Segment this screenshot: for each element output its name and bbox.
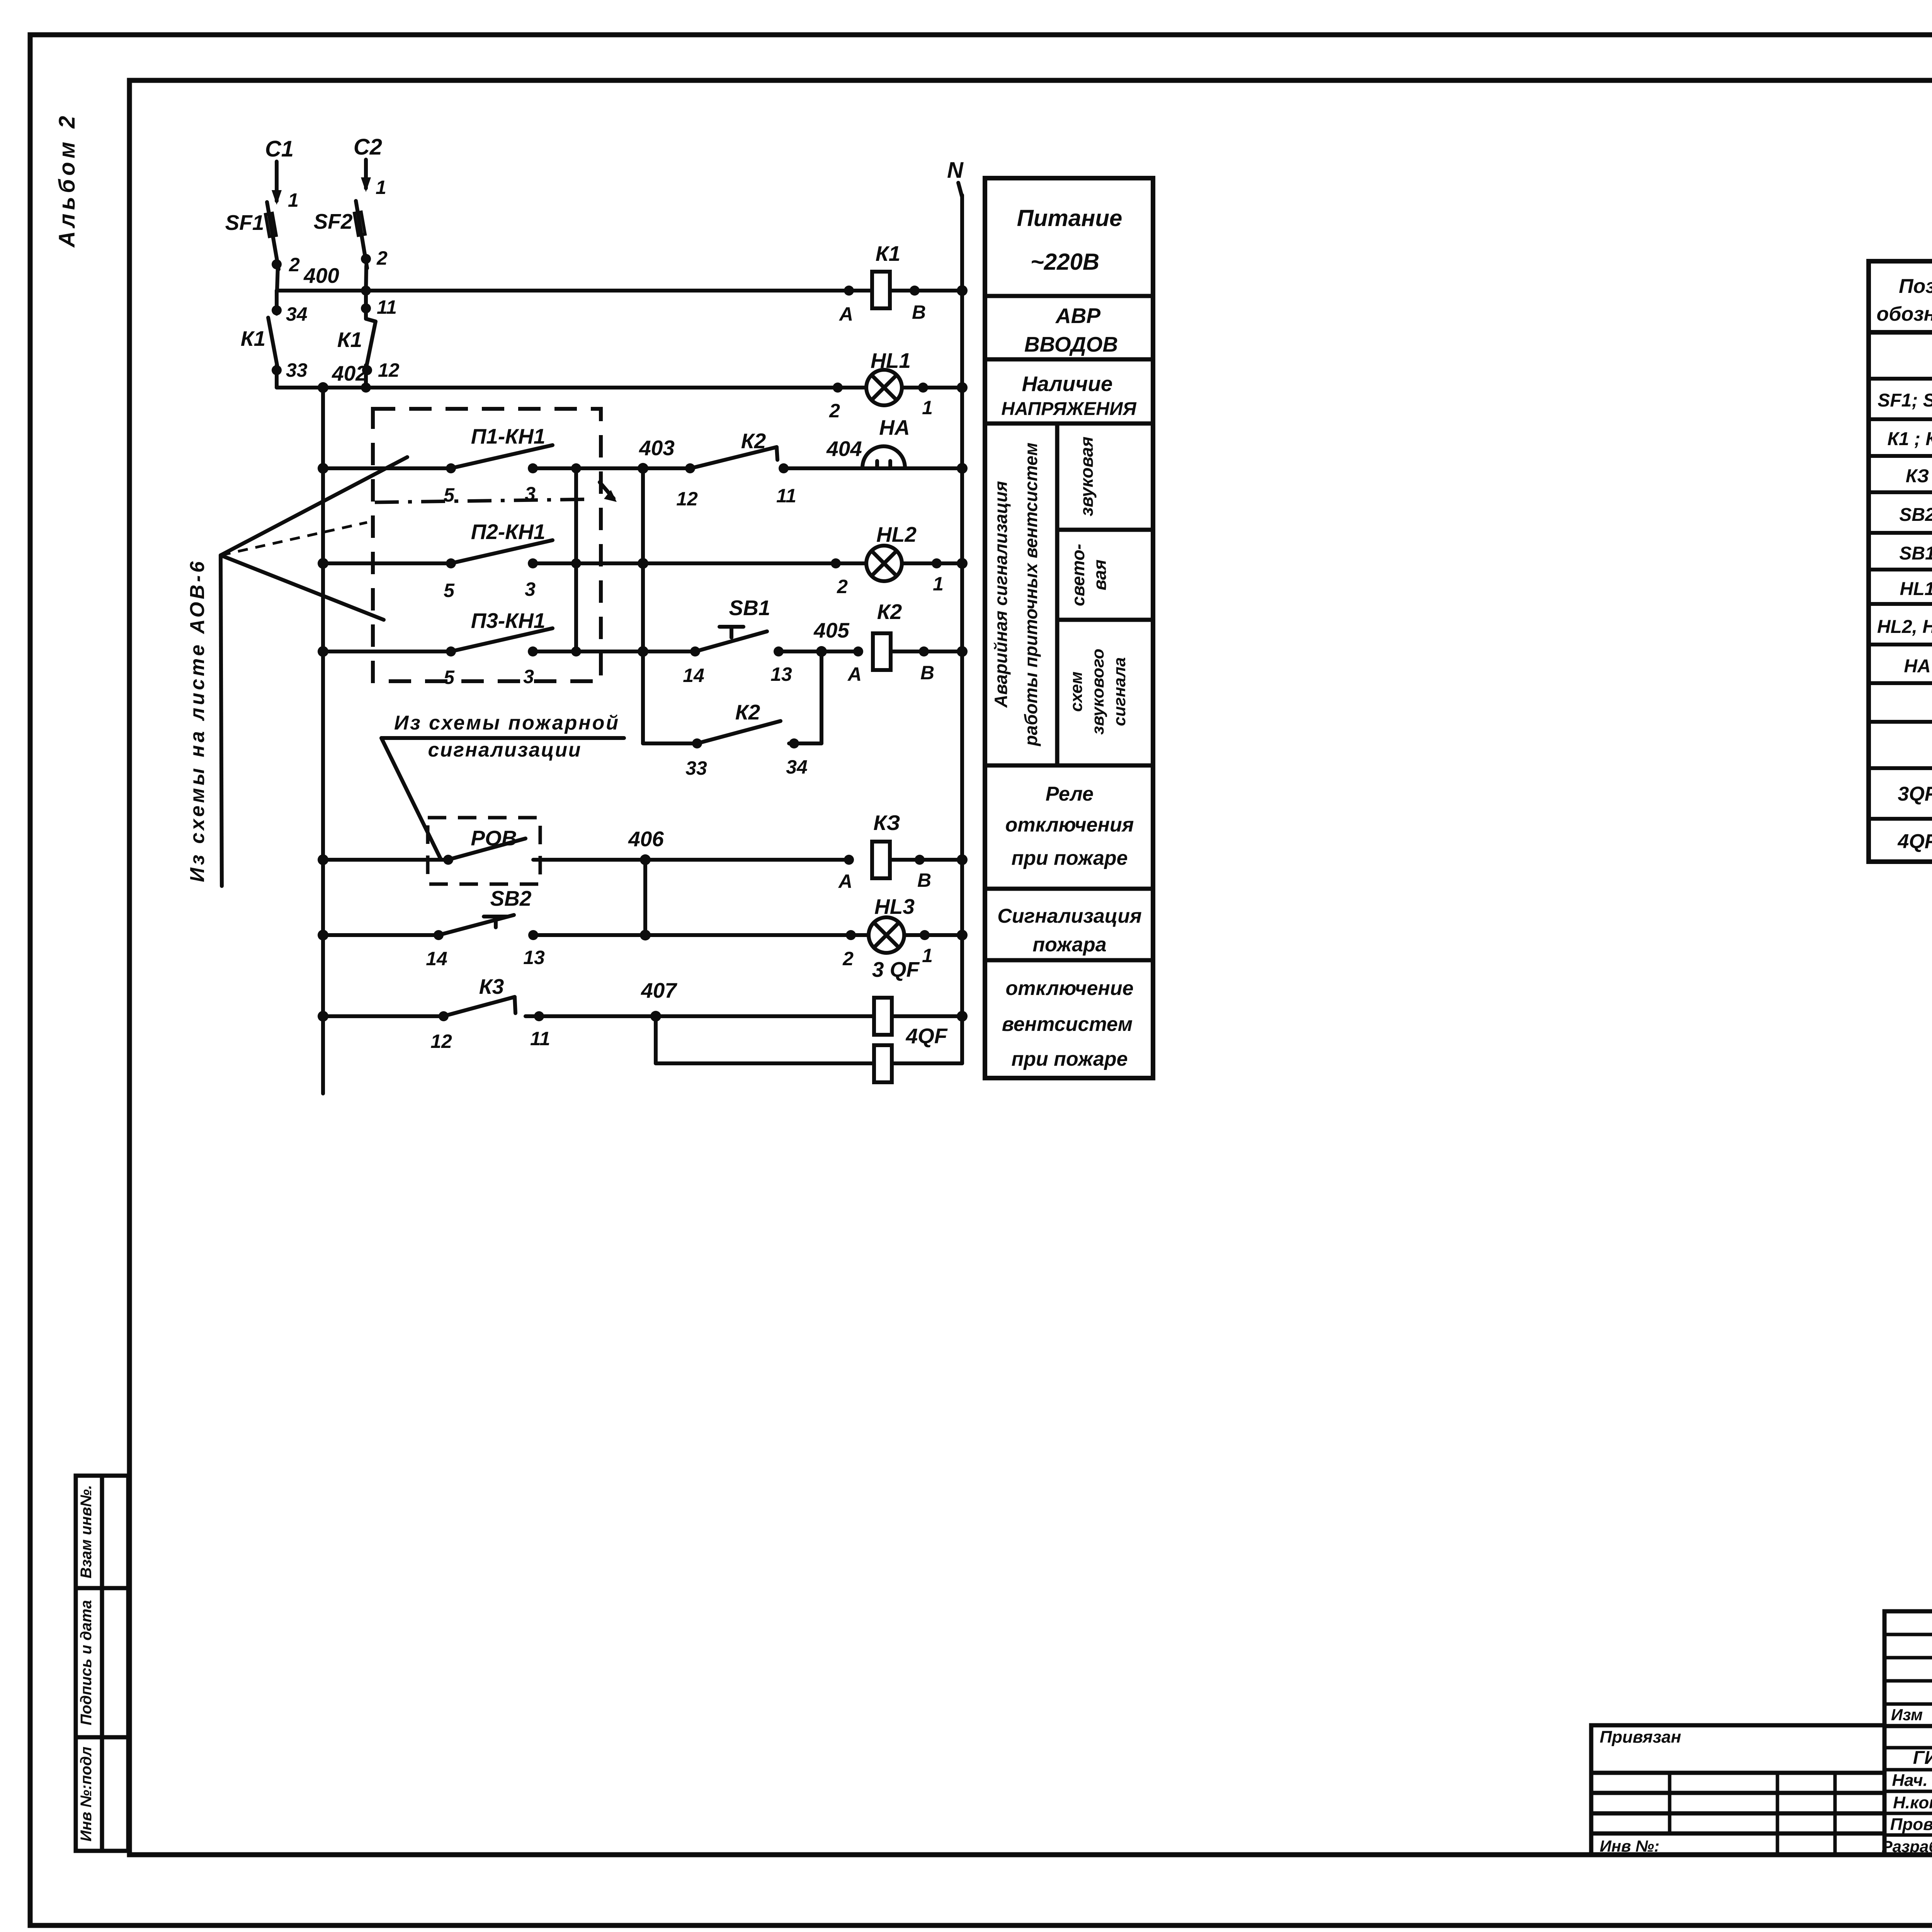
svg-text:звукового: звукового — [1088, 649, 1107, 735]
svg-text:КЗ: КЗ — [1906, 466, 1929, 486]
svg-text:2: 2 — [376, 247, 388, 269]
svg-text:SF1: SF1 — [225, 211, 264, 235]
svg-text:сигнала: сигнала — [1110, 657, 1129, 726]
svg-text:2: 2 — [289, 254, 300, 276]
svg-text:П3-КН1: П3-КН1 — [471, 609, 546, 633]
svg-text:14: 14 — [683, 665, 704, 686]
svg-text:~220В: ~220В — [1031, 249, 1099, 275]
svg-text:1: 1 — [922, 397, 933, 418]
svg-text:А: А — [838, 871, 852, 892]
svg-text:2: 2 — [829, 400, 840, 422]
svg-text:отключение: отключение — [1005, 977, 1133, 1000]
svg-text:34: 34 — [286, 303, 308, 325]
svg-text:ГИП: ГИП — [1913, 1748, 1932, 1768]
svg-text:Взам инв№.: Взам инв№. — [78, 1485, 95, 1578]
svg-text:Аварийная сигнализация: Аварийная сигнализация — [991, 481, 1011, 708]
svg-text:вентсистем: вентсистем — [1002, 1013, 1133, 1036]
svg-text:Н.контр: Н.контр — [1893, 1793, 1932, 1812]
svg-text:при пожаре: при пожаре — [1011, 847, 1128, 869]
svg-text:402: 402 — [332, 361, 367, 385]
svg-text:N: N — [947, 158, 964, 183]
svg-text:1: 1 — [288, 189, 299, 211]
svg-text:Поз: Поз — [1899, 275, 1932, 298]
svg-text:3: 3 — [523, 666, 534, 687]
svg-text:НА: НА — [879, 415, 910, 439]
svg-text:Разработал: Разработал — [1882, 1837, 1932, 1855]
svg-text:Питание: Питание — [1017, 205, 1122, 231]
svg-text:П1-КН1: П1-КН1 — [471, 424, 546, 448]
svg-text:3 QF: 3 QF — [872, 957, 920, 981]
svg-text:А: А — [847, 663, 862, 685]
svg-text:В: В — [920, 662, 934, 684]
svg-text:404: 404 — [826, 437, 862, 461]
svg-text:11: 11 — [776, 485, 796, 507]
svg-text:Изм: Изм — [1891, 1706, 1923, 1724]
svg-text:Нач. отд: Нач. отд — [1892, 1771, 1932, 1790]
svg-text:5: 5 — [444, 667, 455, 688]
svg-text:HL2, HL3: HL2, HL3 — [1877, 617, 1932, 637]
svg-text:НА: НА — [1904, 656, 1930, 677]
svg-text:14: 14 — [426, 948, 447, 969]
svg-text:ВВОДОВ: ВВОДОВ — [1024, 332, 1118, 356]
svg-text:К2: К2 — [741, 429, 766, 453]
svg-text:400: 400 — [303, 264, 339, 287]
svg-text:HL3: HL3 — [874, 895, 915, 918]
svg-text:403: 403 — [639, 436, 675, 460]
svg-text:К2: К2 — [735, 700, 760, 724]
svg-text:4QF: 4QF — [1897, 830, 1932, 853]
svg-text:13: 13 — [523, 947, 545, 968]
svg-text:5: 5 — [444, 484, 455, 506]
svg-text:SB1: SB1 — [729, 596, 770, 620]
svg-text:свето-: свето- — [1068, 544, 1088, 606]
svg-text:407: 407 — [641, 978, 677, 1002]
svg-text:33: 33 — [685, 757, 707, 779]
svg-text:HL1: HL1 — [1900, 579, 1932, 599]
svg-text:АВР: АВР — [1055, 304, 1100, 328]
svg-text:звуковая: звуковая — [1077, 437, 1097, 516]
svg-text:работы приточных вентсистем: работы приточных вентсистем — [1021, 442, 1041, 747]
svg-text:Сигнализация: Сигнализация — [997, 905, 1142, 927]
svg-text:вая: вая — [1090, 560, 1110, 590]
svg-text:КЗ: КЗ — [873, 811, 900, 835]
svg-text:11: 11 — [530, 1028, 550, 1049]
svg-text:405: 405 — [813, 618, 850, 642]
svg-text:А: А — [838, 303, 853, 325]
svg-text:11: 11 — [377, 296, 397, 318]
svg-text:13: 13 — [770, 663, 792, 685]
svg-text:406: 406 — [628, 827, 664, 851]
svg-text:Привязан: Привязан — [1600, 1728, 1681, 1747]
svg-text:5: 5 — [444, 580, 455, 601]
svg-text:1: 1 — [376, 177, 386, 198]
svg-text:Наличие: Наличие — [1022, 372, 1112, 396]
svg-text:В: В — [917, 869, 931, 891]
svg-text:при пожаре: при пожаре — [1011, 1048, 1128, 1070]
svg-text:2: 2 — [842, 948, 854, 969]
svg-text:К1: К1 — [876, 241, 900, 265]
svg-text:обознач: обознач — [1877, 303, 1932, 325]
svg-text:пожара: пожара — [1032, 934, 1106, 956]
svg-text:С2: С2 — [354, 134, 382, 160]
svg-text:НАПРЯЖЕНИЯ: НАПРЯЖЕНИЯ — [1001, 399, 1136, 419]
svg-text:SF1; SF2: SF1; SF2 — [1878, 390, 1932, 411]
svg-text:HL1: HL1 — [871, 349, 911, 372]
svg-text:К2: К2 — [877, 600, 902, 624]
svg-text:Инв №:: Инв №: — [1600, 1837, 1660, 1855]
svg-text:Проверил: Проверил — [1890, 1815, 1932, 1834]
svg-text:SB1: SB1 — [1899, 543, 1932, 564]
svg-text:К3: К3 — [479, 975, 504, 998]
svg-text:Подпись и дата: Подпись и дата — [78, 1600, 95, 1725]
svg-text:3QF: 3QF — [1898, 783, 1932, 805]
svg-text:схем: схем — [1067, 672, 1086, 712]
svg-text:4QF: 4QF — [906, 1024, 948, 1048]
svg-text:SB2: SB2 — [1899, 505, 1932, 525]
svg-text:отключения: отключения — [1005, 814, 1134, 836]
svg-text:П2-КН1: П2-КН1 — [471, 520, 546, 544]
svg-text:SB2: SB2 — [490, 886, 532, 910]
svg-text:SF2: SF2 — [314, 209, 353, 233]
svg-text:2: 2 — [837, 576, 848, 597]
svg-text:К1: К1 — [337, 328, 362, 352]
svg-text:3: 3 — [525, 578, 536, 600]
svg-text:сигнализации: сигнализации — [428, 739, 581, 761]
svg-text:С1: С1 — [265, 136, 294, 162]
svg-text:Реле: Реле — [1046, 783, 1094, 805]
svg-text:В: В — [912, 301, 926, 323]
svg-text:12: 12 — [676, 488, 698, 510]
svg-text:12: 12 — [378, 359, 400, 381]
svg-text:HL2: HL2 — [876, 522, 917, 546]
svg-text:34: 34 — [786, 756, 808, 778]
svg-text:1: 1 — [933, 573, 944, 595]
svg-text:33: 33 — [286, 359, 308, 381]
svg-text:12: 12 — [430, 1031, 452, 1052]
svg-text:Инв №:подл: Инв №:подл — [78, 1747, 95, 1842]
svg-text:К1 ; К2: К1 ; К2 — [1887, 429, 1932, 449]
svg-text:К1: К1 — [241, 327, 265, 350]
svg-text:1: 1 — [922, 945, 933, 966]
